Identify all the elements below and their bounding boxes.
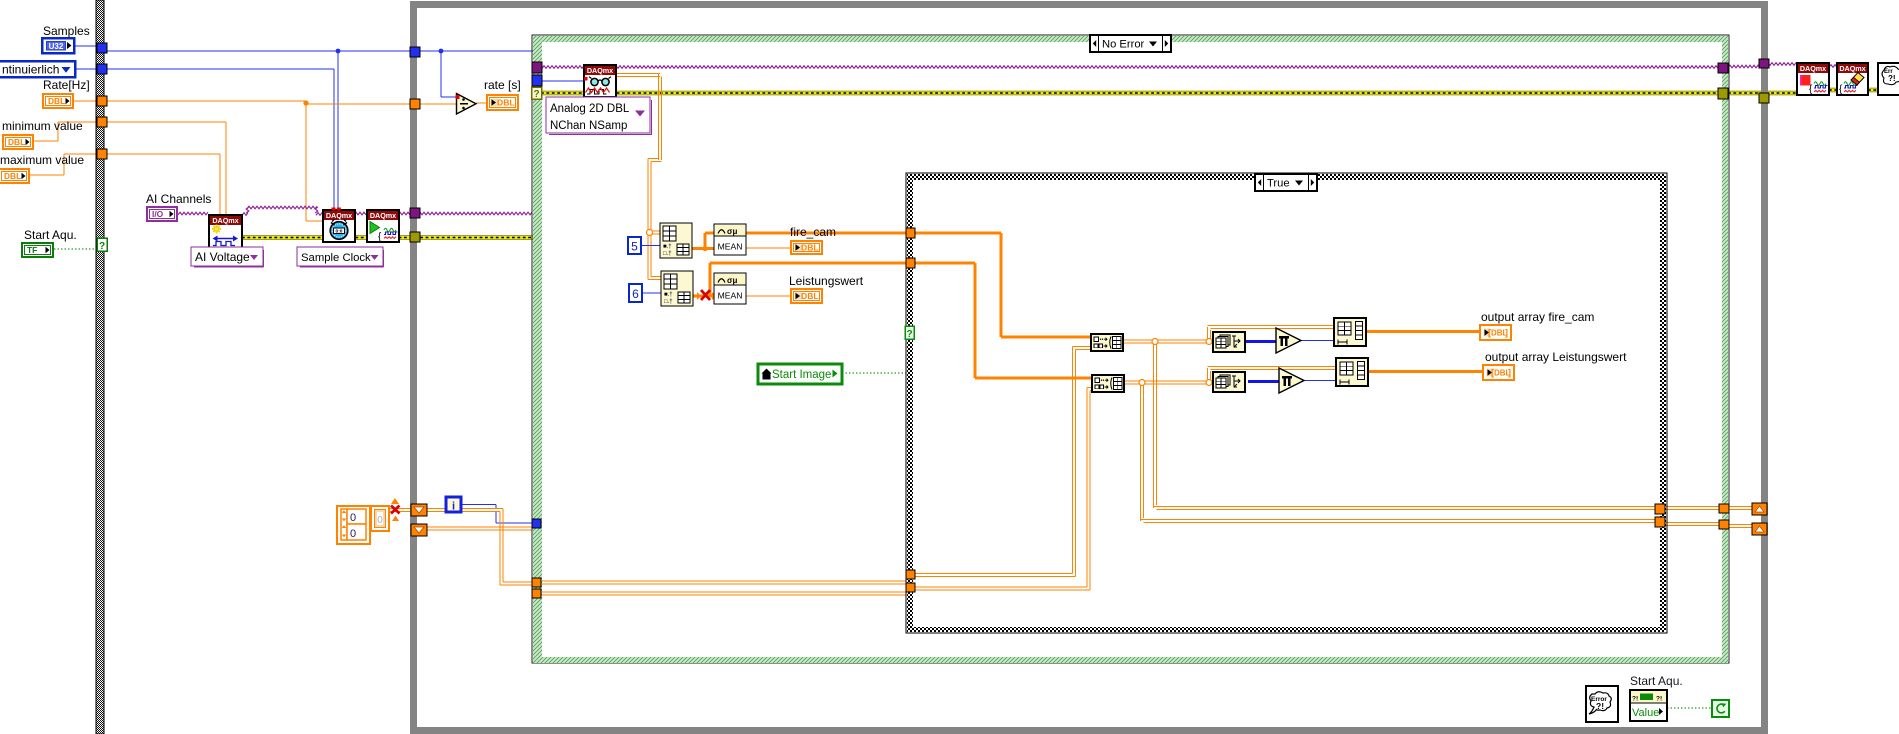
wire Multiply 1 to Reshape 1 (blue): [1301, 340, 1334, 342]
label Samples: [43, 24, 90, 38]
svg-text:DBL: DBL: [4, 171, 21, 181]
svg-text:DAQmx: DAQmx: [370, 211, 396, 220]
wire case tunnels to True case tunnels lower (double orange): [541, 581, 906, 584]
label Start Aqu.: [24, 228, 77, 242]
wire Reshape 2 to output array Leistungswert indicator (thick orange): [1368, 370, 1482, 373]
svg-text:0:0: 0:0: [336, 229, 343, 235]
svg-text:σμ: σμ: [727, 227, 737, 236]
svg-text:i: i: [452, 501, 455, 513]
left shift register 1: [411, 504, 427, 516]
wire error cluster AI Voltage to case border (yellow/black): [242, 235, 533, 240]
label output array Leistungswert: [1485, 350, 1627, 364]
wire 2D data DAQmx Read to Index Array nodes (double orange): [616, 74, 662, 280]
svg-text:6: 6: [632, 287, 639, 301]
tunnel i into case: [532, 519, 541, 528]
breakpoint on row2 wire (red X with orange arrows): [697, 290, 716, 300]
svg-text:σμ: σμ: [727, 276, 737, 285]
node Reshape Array 2: [1336, 358, 1368, 386]
svg-text:Analog 2D DBL: Analog 2D DBL: [550, 103, 630, 115]
tunnel Samples on loop border: [410, 47, 420, 57]
tunnel task on loop border: [410, 208, 420, 218]
node Multiply Array Elements 1: [1276, 328, 1301, 353]
node divide: [456, 94, 477, 115]
coercion dots on Sample Clock inputs: [332, 208, 341, 211]
svg-text:maximum value: maximum value: [0, 153, 84, 167]
wires True case right tunnels to shift registers (double orange): [1665, 507, 1752, 528]
label rate [s]: [484, 78, 521, 92]
True case selector terminal (?): [905, 326, 914, 340]
tunnel 2D out of True 2: [1655, 517, 1665, 527]
svg-text:■.†: ■.†: [663, 244, 672, 250]
svg-text:DBL: DBL: [48, 96, 65, 106]
label output array fire_cam: [1481, 310, 1594, 324]
node MEAN 1: [714, 224, 746, 255]
svg-text:U32: U32: [49, 42, 64, 51]
tunnel kontinuierlich on outer case: [97, 64, 107, 74]
svg-text:TF: TF: [27, 245, 37, 255]
wire task DAQmx Stop to Clear: [1829, 65, 1837, 68]
tunnel 2D accum into True 1: [906, 570, 915, 579]
wire Start Image global to True case selector (green dotted): [842, 372, 906, 374]
indicator fire_cam DBL: [791, 241, 822, 254]
svg-text:DBL: DBL: [8, 137, 25, 147]
wire Array Size 1 to Multiply Array Elements 1 (thick blue): [1245, 340, 1276, 343]
control terminal AI Channels I/O: [147, 207, 177, 221]
tunnel error out of case (right): [1718, 88, 1728, 99]
svg-text:rate [s]: rate [s]: [484, 78, 521, 92]
svg-text:]: ]: [1508, 368, 1511, 378]
wire branch Samples down to Sample Clock node: [336, 49, 341, 211]
control terminal maximum value DBL: [0, 169, 29, 183]
label Analog 2D DBL NChan NSamp selector: [546, 97, 652, 135]
wire Start Aqu local variable to loop condition (green dotted): [1667, 707, 1712, 709]
label minimum value: [2, 119, 83, 133]
wire Samples U32 to loop (blue): [74, 46, 533, 51]
node DAQmx Create Virtual Channel (AI Voltage): [209, 215, 242, 248]
svg-text:?!: ?!: [1656, 696, 1662, 703]
svg-text:output array Leistungswert: output array Leistungswert: [1485, 350, 1627, 364]
local variable Start Aqu. Value: [1630, 690, 1667, 721]
svg-text:NChan NSamp: NChan NSamp: [550, 120, 627, 132]
case structure No Error (green hatched frame): [532, 35, 1729, 663]
label Leistungswert: [789, 274, 864, 288]
tunnel 2D array into case lower 1: [532, 578, 541, 587]
svg-text:?!: ?!: [1888, 74, 1896, 83]
wire row2 1D array Index Array 2 to MEAN 2 and True tunnel (thick orange): [693, 263, 906, 296]
control terminal Samples U32: [42, 38, 74, 53]
svg-text:Start Aqu.: Start Aqu.: [1630, 674, 1683, 688]
wire kontinuierlich enum to Sample Clock node (blue): [75, 69, 334, 211]
svg-text:DBL: DBL: [497, 98, 515, 108]
tunnel 2D array out of case right 2: [1719, 520, 1729, 529]
wire error right of case to DAQmx Stop/Clear/Error handler: [1728, 88, 1879, 96]
svg-text:True: True: [1267, 178, 1290, 190]
svg-text:Sample Clock: Sample Clock: [301, 252, 371, 264]
svg-text:AI Channels: AI Channels: [146, 192, 211, 206]
svg-text:Samples: Samples: [43, 24, 90, 38]
svg-text:DAQmx: DAQmx: [1800, 64, 1826, 73]
array element display box: [371, 506, 389, 531]
wire samples tunnel to DAQmx Read (blue): [542, 80, 585, 82]
wire MEAN 2 output to Leistungswert indicator: [746, 295, 790, 297]
wire left shift register 2 toward case border (double orange): [427, 527, 532, 530]
svg-text:0: 0: [350, 512, 356, 524]
control kontinuierlich (enum): [0, 61, 75, 77]
wire Reshape 1 to output array fire_cam indicator (thick orange): [1366, 330, 1479, 333]
svg-text:?!: ?!: [1596, 701, 1604, 711]
wire accumulated 2D array tunnel to Build Array 1 lower input: [915, 347, 1091, 577]
left shift register 2: [411, 524, 427, 536]
tunnel fire_cam row into True: [906, 228, 915, 238]
svg-text:DBL: DBL: [801, 291, 819, 301]
tunnel task into case: [532, 62, 542, 73]
label Rate[Hz]: [43, 78, 90, 92]
case selector terminal (?) error: [532, 87, 542, 100]
node DAQmx Read: [584, 65, 616, 97]
svg-text:DAQmx: DAQmx: [326, 211, 352, 220]
svg-text:minimum value: minimum value: [2, 119, 83, 133]
wire maximum value to AI Voltage node: [30, 154, 220, 216]
svg-text:MEAN: MEAN: [718, 291, 743, 301]
wire task Start Task to case border (purple): [398, 212, 532, 215]
tunnel Rate on outer case: [97, 96, 107, 106]
svg-text:DBL: DBL: [801, 243, 819, 253]
wire fire_cam row tunnel to Build Array 1 (thick orange): [915, 233, 1091, 337]
wire task AI Voltage to Sample Clock (purple): [242, 206, 322, 215]
selector label No Error: [1090, 35, 1171, 52]
constant 6: [629, 284, 642, 302]
svg-text:]: ]: [1505, 328, 1508, 338]
node Build Array 1: [1091, 334, 1123, 351]
svg-text:□.†: □.†: [664, 299, 673, 305]
node MEAN 2: [714, 273, 746, 304]
svg-text:AI Voltage: AI Voltage: [195, 250, 250, 264]
tunnel task out of case (right): [1718, 63, 1728, 73]
svg-text:No Error: No Error: [1102, 39, 1145, 51]
wire Multiply 2 to Reshape 2 (blue): [1304, 380, 1336, 382]
svg-text:fire_cam: fire_cam: [790, 225, 836, 239]
svg-text:0: 0: [350, 528, 356, 540]
node DAQmx Stop Task: [1797, 63, 1829, 95]
wire task Sample Clock to Start Task: [354, 212, 366, 215]
svg-text:■.†: ■.†: [664, 292, 673, 298]
node Array Size 2: [1213, 372, 1245, 392]
wire branch Samples down to divide: [439, 49, 457, 97]
selector label True: [1255, 174, 1317, 191]
svg-text:0: 0: [377, 515, 383, 526]
svg-text:?: ?: [906, 329, 912, 340]
wire Build Array 2 output (2D) to Array Size/Reshape and right tunnel: [1124, 367, 1655, 523]
svg-text:□.†: □.†: [663, 251, 672, 257]
tunnel minimum on outer case: [97, 117, 107, 127]
svg-text:DAQmx: DAQmx: [212, 216, 238, 225]
indicator Leistungswert DBL: [791, 289, 822, 303]
indicator output array fire_cam: [1480, 325, 1511, 340]
svg-text:Start Aqu.: Start Aqu.: [24, 228, 77, 242]
wire Rate[Hz] to divide and Sample Clock (orange): [74, 100, 457, 221]
wire row1 1D array Index Array 1 to MEAN 1 and True tunnel (thick orange): [692, 233, 906, 251]
wire error through case (yellow/black): [541, 91, 1723, 96]
label fire_cam: [790, 225, 836, 239]
label Sample Clock selector: [297, 247, 384, 267]
svg-text:?: ?: [99, 241, 105, 252]
outer case structure left border (checkered bar): [96, 0, 104, 734]
node Array Size 1: [1213, 332, 1245, 352]
tunnel maximum on outer case: [97, 149, 107, 159]
label maximum value: [0, 153, 84, 167]
tunnel Leistungswert row into True: [906, 258, 915, 268]
wire minimum value to AI Voltage node: [34, 122, 226, 216]
wire iteration terminal i to case tunnel (blue): [460, 505, 533, 524]
svg-text:?!: ?!: [1632, 696, 1638, 703]
tunnel 2D array out of case right 1: [1719, 504, 1729, 513]
wire array constant to left shift register (double orange): [389, 509, 411, 512]
tunnel error on loop right border: [1759, 93, 1769, 103]
indicator output array Leistungswert: [1483, 365, 1514, 380]
svg-text:?: ?: [533, 89, 539, 100]
node Index Array 1: [660, 223, 692, 258]
tunnel 2D accum into True 2: [906, 583, 915, 592]
wire index constant 5 to Index Array 1 (blue): [640, 245, 660, 247]
breakpoint above array constant (red X, orange arrows): [391, 498, 400, 521]
node Reshape Array 1: [1334, 318, 1366, 346]
tunnel samples into case: [532, 75, 542, 86]
svg-text:Value: Value: [1632, 707, 1659, 719]
tunnel task on loop right border: [1759, 59, 1769, 68]
tunnel Rate on loop border: [410, 99, 420, 109]
node DAQmx Start Task: [367, 210, 399, 243]
tunnel 2D out of True 1: [1655, 504, 1665, 514]
wire Start Aqu. TF to outer case selector (green dotted): [54, 248, 97, 250]
array constant (two 0 elements): [337, 506, 370, 544]
label AI Channels: [146, 192, 211, 206]
global variable Start Image: [758, 364, 842, 384]
node Build Array 2: [1092, 375, 1124, 392]
node Simple Error Handler (Error ?!): [1586, 686, 1618, 722]
tunnel 2D array into case lower 2: [532, 589, 541, 598]
svg-text:Start Image: Start Image: [772, 369, 831, 381]
right shift register 1: [1752, 503, 1767, 515]
svg-text:I/O: I/O: [152, 209, 164, 219]
node Multiply Array Elements 2: [1279, 368, 1304, 393]
case structure True (black/white checkered frame): [906, 173, 1667, 633]
node Index Array 2: [661, 271, 693, 306]
node Error cloud (right edge): [1878, 63, 1899, 95]
wire divide output to rate [s] indicator: [476, 102, 487, 104]
indicator rate [s] DBL: [487, 95, 518, 110]
wire task right of case to DAQmx Stop (purple): [1728, 63, 1796, 68]
control terminal Start Aqu. TF: [22, 243, 53, 257]
wire Leistungswert row tunnel to Build Array 2 (thick orange): [915, 263, 1092, 378]
iteration terminal i: [446, 497, 461, 513]
svg-text:ntinuierlich: ntinuierlich: [2, 63, 59, 77]
while loop border (gray frame): [410, 1, 1768, 734]
outer case selector terminal (?): [97, 238, 107, 252]
loop condition terminal (continue): [1712, 700, 1729, 717]
wire MEAN 1 output to fire_cam indicator: [746, 247, 790, 249]
svg-text:output array fire_cam: output array fire_cam: [1481, 310, 1594, 324]
svg-text:Rate[Hz]: Rate[Hz]: [43, 78, 90, 92]
control terminal Rate[Hz] DBL: [43, 94, 73, 108]
tunnel Samples on outer case: [97, 43, 107, 53]
control terminal minimum value DBL: [3, 135, 33, 149]
tunnel error on loop border: [410, 232, 420, 242]
constant 5: [628, 237, 641, 254]
wire index constant 6 to Index Array 2 (blue): [642, 292, 661, 294]
svg-text:5: 5: [631, 240, 638, 254]
right shift register 2: [1752, 523, 1767, 535]
coercion dot on Read samples input: [584, 77, 588, 81]
wire left shift register 1 into case (double orange): [427, 509, 533, 586]
label AI Voltage selector: [191, 247, 264, 267]
svg-text:MEAN: MEAN: [718, 242, 743, 252]
label Start Aqu. (local): [1630, 674, 1683, 688]
node DAQmx Clear Task: [1837, 63, 1868, 95]
wire Build Array 1 output (2D) to Array Size/Reshape and right tunnel: [1123, 326, 1655, 510]
wire AI Channels task to AI Voltage node (purple zigzag): [178, 212, 208, 215]
wire task tunnel to DAQmx Read and right tunnel (purple): [542, 66, 1722, 69]
node DAQmx Timing (Sample Clock): [323, 210, 355, 242]
wire accumulated 2D array tunnel to Build Array 2 lower input: [915, 388, 1092, 591]
svg-text:DAQmx: DAQmx: [1839, 64, 1865, 73]
wire Array Size 2 to Multiply Array Elements 2 (thick blue): [1248, 380, 1279, 383]
svg-text:DAQmx: DAQmx: [587, 66, 613, 75]
svg-text:Leistungswert: Leistungswert: [789, 274, 864, 288]
